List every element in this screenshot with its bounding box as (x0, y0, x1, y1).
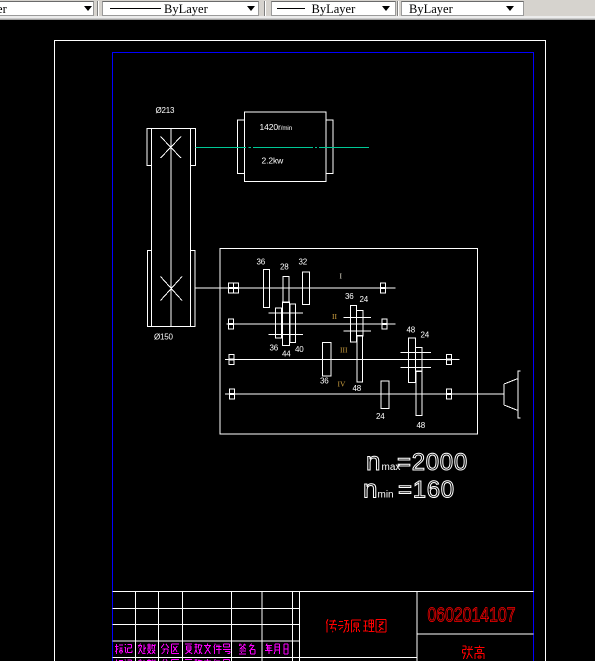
drawing title 传动原理图 (326, 619, 386, 633)
engagement tick II-III bottom (344, 330, 372, 332)
svg-text:I: I (340, 272, 343, 281)
svg-text:nmax=2000: nmax=2000 (366, 446, 468, 476)
title block grid lines (113, 592, 534, 661)
svg-text:24: 24 (421, 331, 430, 340)
pulley P2 cross stroke 1 (161, 277, 183, 301)
svg-text:48: 48 (417, 421, 426, 430)
partial row 更改文件号 (185, 659, 230, 661)
author name 张高 (463, 646, 485, 660)
partial row 分区 (161, 659, 179, 661)
shaft IV line (225, 393, 504, 395)
partial row 标记 (115, 660, 132, 661)
toolbar separator (397, 1, 399, 16)
title cell 更改文件号 (185, 644, 230, 655)
engagement tick II-III top (344, 317, 372, 319)
gear z36 shaft III (323, 343, 332, 377)
motor M body (245, 112, 327, 182)
title cell 年月日 (265, 644, 288, 655)
motor axis centerline (green) (196, 147, 370, 149)
svg-text:36: 36 (270, 344, 279, 353)
svg-text:IV: IV (338, 380, 346, 389)
svg-text:44: 44 (282, 350, 291, 359)
gear z40 shaft II cluster (290, 304, 296, 343)
pulley P1 cross stroke 1 (161, 137, 182, 159)
drawing sheet outer border (white) (55, 41, 546, 661)
gear z24 shaft IV (381, 381, 389, 409)
svg-text:24: 24 (360, 295, 369, 304)
svg-text:32: 32 (299, 258, 308, 267)
belt shaft centerline (170, 129, 172, 327)
svg-text:24: 24 (376, 412, 385, 421)
gearbox housing (220, 249, 478, 435)
bearing shaft I left b (234, 283, 239, 293)
shaft II line (227, 323, 396, 325)
engagement tick III-IV top (401, 352, 432, 354)
motor M left flange (238, 120, 245, 174)
cluster II engagement tick top (269, 312, 304, 314)
svg-text:48: 48 (407, 326, 416, 335)
motor M right flange (326, 120, 333, 174)
shaft I line (196, 287, 396, 289)
bearing shaft II right (382, 319, 387, 329)
gear z36 shaft I (264, 270, 270, 308)
bearing shaft I left a (229, 283, 234, 293)
toolbar separator (97, 1, 99, 16)
plot style combo ByLayer (401, 1, 524, 16)
gear z48 shaft III right (409, 338, 416, 383)
gear z48 long shaft III (357, 336, 363, 383)
lineweight combo ByLayer (271, 1, 396, 16)
svg-text:2.2kw: 2.2kw (262, 156, 285, 166)
belt V1 body rect (152, 129, 191, 327)
grinding wheel symbol (504, 371, 521, 418)
partial row 处数 (138, 659, 155, 661)
title cell 处数 (138, 644, 155, 655)
gear z24 shaft III right (416, 348, 423, 372)
linetype combo ByLayer (102, 1, 259, 16)
color combo (cut off at left, shows tail of ByLayer) (0, 1, 94, 16)
gear z36 shaft II right (351, 306, 357, 343)
svg-text:36: 36 (320, 377, 329, 386)
bearing shaft III right (447, 354, 452, 364)
svg-text:II: II (332, 312, 337, 321)
pulley P1 right flange (191, 129, 196, 166)
gear z28 shaft I (283, 277, 289, 303)
shaft III line (225, 359, 460, 361)
svg-text:nmin=160: nmin=160 (363, 474, 455, 504)
pulley P1 cross stroke 2 (161, 137, 182, 159)
bearing shaft IV right (447, 389, 452, 399)
pulley P2 cross stroke 2 (161, 277, 183, 301)
title cell 分区 (161, 644, 179, 654)
svg-text:36: 36 (345, 292, 354, 301)
svg-text:40: 40 (295, 345, 304, 354)
toolbar separator (264, 1, 266, 16)
bearing shaft IV left (230, 389, 235, 399)
bearing shaft I right (381, 283, 386, 293)
pulley P2 left flange (148, 251, 152, 327)
svg-text:28: 28 (280, 263, 289, 272)
title cell 签名 (239, 644, 255, 655)
gear z32 shaft I (303, 272, 310, 305)
drawing frame border (blue) (113, 53, 534, 661)
gear z48 lower shaft IV mesh (416, 371, 422, 416)
engagement tick III-IV bottom (401, 367, 432, 369)
title cell 标记 (115, 644, 132, 654)
svg-text:48: 48 (353, 384, 362, 393)
bearing shaft III left (229, 354, 234, 364)
cluster II engagement tick bottom (269, 334, 304, 336)
svg-text:36: 36 (257, 258, 266, 267)
properties toolbar (0, 0, 595, 20)
gear z44 shaft II cluster (283, 302, 290, 346)
pulley P2 right flange (191, 251, 196, 327)
gear z36 shaft II cluster (276, 308, 282, 338)
svg-text:1420r/min: 1420r/min (260, 122, 293, 132)
svg-text:Ø213: Ø213 (156, 106, 176, 115)
gear z24 shaft II right (357, 311, 364, 337)
bearing shaft II left (229, 319, 234, 329)
svg-text:Ø150: Ø150 (154, 333, 174, 342)
svg-text:III: III (340, 346, 348, 355)
svg-text:0602014107: 0602014107 (428, 605, 516, 627)
pulley P1 left flange (147, 129, 152, 166)
